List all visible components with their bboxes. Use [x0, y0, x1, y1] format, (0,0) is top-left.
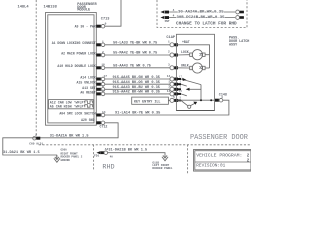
- svg-text:1: 1: [168, 80, 170, 83]
- entry ill rail through latch: [176, 99, 214, 101]
- pin A13: [96, 85, 104, 91]
- pin A10: [96, 64, 105, 70]
- svg-text:A13 SET: A13 SET: [82, 86, 95, 90]
- svg-text:31-DA21A BK WR 1.5: 31-DA21A BK WR 1.5: [50, 134, 89, 138]
- svg-text:30B-DC24B BK WR 0.35: 30B-DC24B BK WR 0.35: [177, 16, 226, 20]
- top right dashed connector box: [157, 0, 247, 28]
- pin A6: [96, 90, 105, 96]
- svg-text:C712: C712: [100, 125, 108, 129]
- svg-text:RHD: RHD: [102, 163, 114, 171]
- eyelet terminal a: [236, 10, 244, 14]
- eyelet terminal b: [236, 16, 244, 20]
- svg-text:A15 UNLOCK: A15 UNLOCK: [77, 81, 96, 85]
- svg-text:A04 SMC LOCK SWITCH: A04 SMC LOCK SWITCH: [59, 112, 95, 116]
- wire 915-AA44: [105, 83, 170, 85]
- ground wire 31-DA21A run: [3, 123, 118, 159]
- ground G50A label: [61, 149, 83, 162]
- svg-text:9: 9: [105, 22, 107, 25]
- footer vehicle program box: [194, 150, 252, 172]
- C1AP pin 1: [168, 40, 178, 46]
- svg-text:CHANGE TO LATCH FOR RHD: CHANGE TO LATCH FOR RHD: [176, 21, 237, 26]
- svg-text:915-AA43 BK-BU WR 0.35: 915-AA43 BK-BU WR 0.35: [113, 86, 160, 90]
- passenger door module U1 (double box): [46, 13, 97, 126]
- svg-text:A2 MAIN POWER LOCK: A2 MAIN POWER LOCK: [61, 51, 96, 55]
- svg-text:4: 4: [173, 9, 175, 12]
- svg-text:ROCKER PANEL: ROCKER PANEL: [152, 167, 172, 170]
- svg-text:30-AA24A BK WR 0.35: 30-AA24A BK WR 0.35: [178, 10, 224, 14]
- C1AP pin 14: [167, 90, 178, 96]
- C148 pin: [215, 98, 223, 102]
- svg-text:C60 9(5): C60 9(5): [29, 142, 43, 146]
- svg-text:14: 14: [101, 90, 105, 93]
- svg-text:A1 DOWN LOCKING CONNECT: A1 DOWN LOCKING CONNECT: [52, 41, 96, 45]
- wire 55-MA42: [105, 54, 170, 56]
- switch S1 lock position: [181, 78, 201, 85]
- wire 91-LA14: [105, 100, 229, 115]
- svg-text:58-AA43 YE WR 0.75: 58-AA43 YE WR 0.75: [113, 64, 151, 68]
- svg-text:A9 30 - PWR: A9 30 - PWR: [75, 25, 96, 29]
- svg-text:55-MA42 YE-BN WR 0.75: 55-MA42 YE-BN WR 0.75: [113, 52, 157, 56]
- wire 915-AA45: [105, 78, 170, 80]
- wire 915-AA43: [105, 88, 170, 90]
- svg-text:3: 3: [168, 86, 170, 89]
- junction: [200, 99, 202, 101]
- svg-text:UNLK: UNLK: [181, 64, 189, 68]
- svg-text:A14 LOCK: A14 LOCK: [80, 76, 95, 80]
- wire 58-AA43: [105, 67, 170, 69]
- key entry ill lamp box: [132, 97, 169, 104]
- module internal pin-name labels: [52, 25, 96, 122]
- latch +BV feed rail: [176, 45, 209, 68]
- svg-text:2: 2: [35, 134, 37, 137]
- wire 30-AA24A: [169, 11, 235, 13]
- svg-text:2: 2: [168, 51, 170, 54]
- svg-text:KEY ENTRY ILL: KEY ENTRY ILL: [134, 100, 160, 104]
- pin A1: [96, 41, 104, 47]
- pin A20 GND: [96, 121, 104, 125]
- svg-text:3: 3: [168, 63, 170, 66]
- svg-text:50-LA33 YE-BK WR 0.75: 50-LA33 YE-BK WR 0.75: [113, 41, 157, 45]
- wire A9 battery feed: [105, 0, 121, 26]
- svg-text:VEHICLE PROGRAM:: VEHICLE PROGRAM:: [196, 152, 242, 158]
- switch S2 contact: [181, 84, 187, 86]
- svg-text:10: 10: [101, 64, 105, 67]
- C1AP pin 2b: [168, 80, 178, 86]
- ground G11B label: [152, 162, 172, 171]
- pin A2: [96, 51, 104, 57]
- wire 50-LA33: [105, 44, 170, 46]
- svg-text:915-AA44 BK-OG WR 0.35: 915-AA44 BK-OG WR 0.35: [113, 81, 160, 85]
- svg-text:G50A: G50A: [61, 149, 68, 152]
- node 14OL4 dashed takeout line: [35, 0, 37, 138]
- svg-text:GROUND: GROUND: [61, 159, 71, 162]
- svg-text:MODULE: MODULE: [77, 8, 91, 12]
- switch S3 arm: [186, 88, 201, 91]
- svg-text:C713: C713: [101, 18, 110, 22]
- svg-text:31-DA21B BK WR 1.5: 31-DA21B BK WR 1.5: [108, 149, 147, 153]
- svg-text:1: 1: [102, 41, 104, 44]
- svg-text:3: 3: [102, 85, 104, 88]
- svg-text:14: 14: [167, 90, 171, 93]
- svg-text:INT: INT: [164, 20, 169, 23]
- pin A9: [96, 22, 106, 28]
- junction: [210, 99, 212, 101]
- svg-text:17: 17: [179, 75, 183, 78]
- svg-text:14: 14: [179, 90, 183, 93]
- svg-text:A5 CAN HIGH ‘WFLP’: A5 CAN HIGH ‘WFLP’: [50, 104, 86, 108]
- wire entry ill to latch: [168, 99, 170, 101]
- svg-text:915-AA45 BK-GN WR 0.35: 915-AA45 BK-GN WR 0.35: [113, 76, 160, 80]
- svg-text:915-AA42 BK-WH WR 0.35: 915-AA42 BK-WH WR 0.35: [113, 91, 160, 95]
- svg-text:1: 1: [168, 40, 170, 43]
- wire 915-AA42: [105, 93, 170, 95]
- svg-text:REVISION:01: REVISION:01: [196, 164, 225, 169]
- wire 31-DA21B: [108, 153, 165, 158]
- switch common rail: [200, 85, 202, 101]
- C1AP pin 2: [168, 51, 178, 57]
- switch S4 contact: [181, 94, 187, 96]
- C1AP pin 5 (entry ill): [170, 96, 178, 103]
- pin A15: [96, 80, 104, 86]
- pin A14: [96, 75, 107, 81]
- svg-text:+BAT: +BAT: [182, 40, 190, 44]
- inline connector C60: [29, 134, 43, 146]
- motor M2 rail link: [205, 67, 209, 69]
- RHD zone dashed vertical: [93, 145, 95, 172]
- svg-text:ASSY: ASSY: [229, 44, 238, 48]
- C1AP pin 3b: [168, 86, 178, 92]
- module name label: [77, 3, 97, 12]
- svg-text:A6 RESET: A6 RESET: [80, 90, 95, 94]
- svg-text:M: M: [197, 66, 203, 69]
- ground G11B: [162, 155, 168, 160]
- latch name label: [229, 37, 249, 48]
- svg-text:14: 14: [102, 111, 106, 114]
- svg-text:FD1: FD1: [94, 155, 99, 158]
- svg-text:17: 17: [104, 75, 108, 78]
- svg-text:A20 GND: A20 GND: [81, 118, 94, 122]
- C1AP pin 3: [168, 63, 178, 69]
- svg-text:31-DA21 BK WR 1.5: 31-DA21 BK WR 1.5: [3, 151, 40, 155]
- ground G50A: [54, 155, 60, 162]
- pin A04 SMC lock switch: [96, 111, 105, 117]
- pigtail pin 4a: [161, 9, 175, 14]
- svg-text:M: M: [197, 53, 203, 56]
- pigtail pin 4b: [161, 14, 175, 19]
- latch internal pin numbers: [179, 75, 183, 99]
- svg-text:5: 5: [173, 96, 175, 99]
- svg-text:14OL4: 14OL4: [18, 6, 30, 10]
- lock motor M1: [176, 50, 205, 60]
- svg-text:4: 4: [173, 14, 175, 17]
- svg-text:2: 2: [102, 51, 104, 54]
- C1AP pin 17: [167, 75, 178, 81]
- unlock motor M2: [176, 63, 205, 73]
- bottom boundary dashed line: [39, 144, 251, 146]
- svg-text:91-LA14 BK-YE WR 0.35: 91-LA14 BK-YE WR 0.35: [115, 112, 160, 116]
- CAN waveform symbols: [85, 101, 93, 104]
- svg-text:4A: 4A: [110, 156, 114, 159]
- RHD pigtail connector: [94, 148, 113, 158]
- svg-text:14: 14: [167, 75, 171, 78]
- svg-text:PASSENGER DOOR: PASSENGER DOOR: [190, 134, 248, 142]
- svg-text:14B138: 14B138: [44, 6, 58, 10]
- wire 30B-DC24B: [169, 17, 235, 19]
- pivot switch S5: [181, 101, 197, 109]
- svg-text:LOCK: LOCK: [181, 50, 189, 54]
- svg-text:2: 2: [102, 80, 104, 83]
- footer zone dashed vertical: [187, 145, 189, 175]
- motor M1 rail link: [205, 54, 209, 56]
- CAN network inner box: [49, 100, 94, 109]
- latch switch stubs: [177, 78, 182, 101]
- svg-text:A10 HOLD DOUBLE LOCK: A10 HOLD DOUBLE LOCK: [57, 64, 95, 68]
- passenger door latch assembly box: [176, 34, 214, 110]
